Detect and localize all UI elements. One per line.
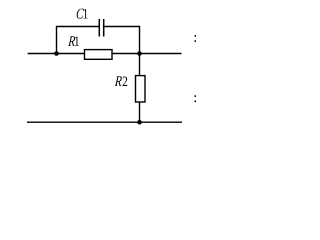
svg-text:R: R: [113, 72, 122, 89]
svg-text:1: 1: [74, 32, 80, 49]
svg-text:2: 2: [122, 72, 128, 89]
svg-text:1: 1: [83, 5, 89, 22]
